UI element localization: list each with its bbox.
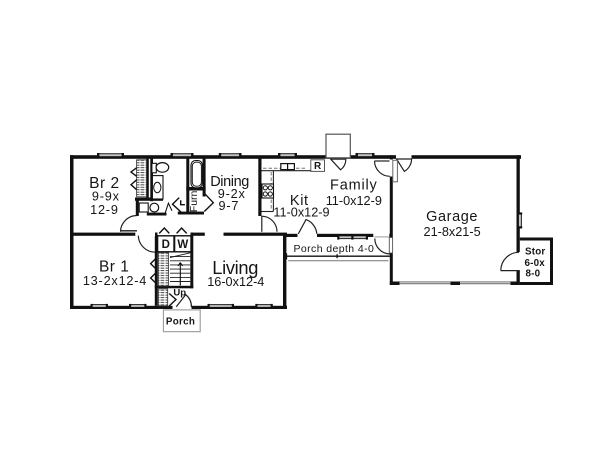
svg-text:Porch: Porch: [166, 317, 195, 328]
svg-text:11-0x12-9: 11-0x12-9: [273, 206, 329, 220]
svg-text:13-2x12-4: 13-2x12-4: [83, 274, 147, 288]
svg-text:9-9x: 9-9x: [92, 190, 120, 204]
svg-text:Garage: Garage: [426, 209, 478, 225]
svg-text:Family: Family: [330, 178, 378, 194]
svg-text:21-8x21-5: 21-8x21-5: [424, 225, 481, 239]
svg-text:16-0x12-4: 16-0x12-4: [207, 275, 264, 289]
svg-text:Furn: Furn: [188, 190, 200, 212]
svg-text:12-9: 12-9: [90, 203, 119, 217]
svg-text:R: R: [314, 161, 322, 172]
svg-text:W: W: [177, 239, 188, 251]
svg-text:Porch depth 4-0: Porch depth 4-0: [294, 243, 375, 255]
svg-text:Stor: Stor: [525, 247, 545, 258]
svg-text:8-0: 8-0: [526, 268, 541, 279]
svg-text:11-0x12-9: 11-0x12-9: [326, 194, 382, 208]
svg-text:Up: Up: [173, 287, 186, 298]
svg-text:D: D: [162, 239, 170, 251]
svg-text:9-7: 9-7: [218, 199, 239, 213]
